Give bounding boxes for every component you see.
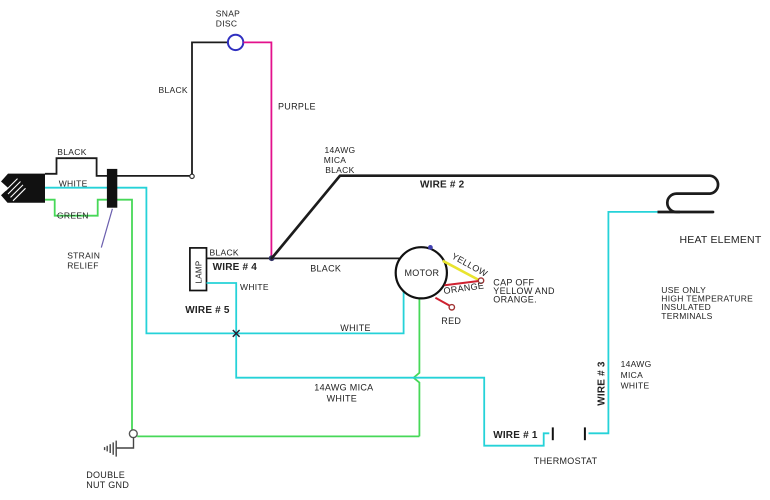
- svg-text:GREEN: GREEN: [57, 211, 89, 221]
- svg-text:WHITE: WHITE: [340, 323, 371, 333]
- svg-text:ORANGE: ORANGE: [443, 280, 485, 296]
- svg-text:HEAT ELEMENT: HEAT ELEMENT: [680, 234, 762, 246]
- svg-text:BLACK: BLACK: [57, 147, 86, 157]
- svg-text:RELIEF: RELIEF: [67, 261, 99, 271]
- svg-text:PURPLE: PURPLE: [278, 102, 316, 112]
- svg-text:SNAP: SNAP: [216, 8, 240, 18]
- svg-text:WIRE # 4: WIRE # 4: [213, 262, 258, 273]
- svg-text:WHITE: WHITE: [327, 394, 358, 404]
- svg-text:14AWG MICA: 14AWG MICA: [314, 382, 373, 392]
- svg-text:LAMP: LAMP: [195, 261, 204, 284]
- svg-text:DISC: DISC: [216, 18, 238, 28]
- svg-text:STRAIN: STRAIN: [67, 250, 100, 260]
- svg-text:WHITE: WHITE: [621, 381, 650, 391]
- svg-text:WHITE: WHITE: [240, 282, 269, 292]
- svg-text:BLACK: BLACK: [210, 248, 239, 258]
- svg-text:BLACK: BLACK: [325, 165, 354, 175]
- svg-text:14AWG: 14AWG: [325, 145, 356, 155]
- svg-text:MOTOR: MOTOR: [405, 268, 440, 278]
- svg-text:THERMOSTAT: THERMOSTAT: [534, 456, 598, 466]
- svg-text:14AWG: 14AWG: [621, 359, 652, 369]
- svg-text:NUT GND: NUT GND: [86, 480, 129, 490]
- svg-text:DOUBLE: DOUBLE: [86, 470, 125, 480]
- svg-text:WIRE # 3: WIRE # 3: [597, 361, 608, 406]
- svg-text:WIRE # 1: WIRE # 1: [493, 430, 538, 441]
- svg-text:RED: RED: [441, 316, 461, 326]
- svg-text:WIRE # 2: WIRE # 2: [420, 180, 465, 191]
- svg-text:WIRE # 5: WIRE # 5: [185, 305, 230, 316]
- svg-text:MICA: MICA: [621, 370, 643, 380]
- svg-text:WHITE: WHITE: [59, 178, 88, 188]
- svg-text:ORANGE.: ORANGE.: [493, 295, 537, 305]
- svg-text:BLACK: BLACK: [159, 85, 188, 95]
- svg-text:MICA: MICA: [324, 155, 346, 165]
- svg-text:BLACK: BLACK: [310, 263, 341, 273]
- svg-text:TERMINALS: TERMINALS: [661, 311, 712, 321]
